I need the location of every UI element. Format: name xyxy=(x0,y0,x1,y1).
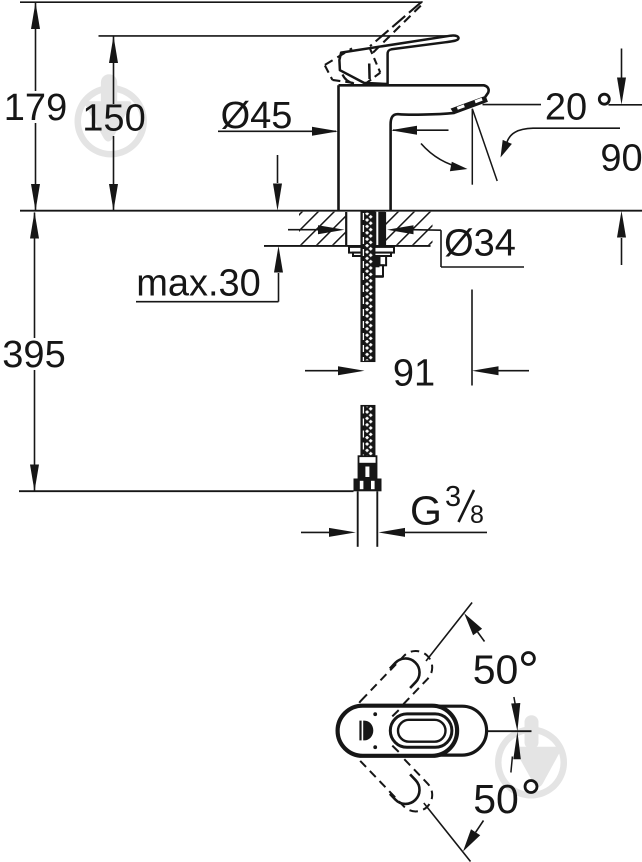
braided hose lower segment xyxy=(361,406,374,456)
inclined 20deg line xyxy=(472,109,497,181)
lever front lower edge xyxy=(368,64,371,80)
black D mark xyxy=(359,721,373,741)
dimension 395 xyxy=(30,212,39,492)
centerline to the right xyxy=(487,730,532,732)
pivot tick marks on lever pill cap xyxy=(392,710,398,752)
aerator on spout xyxy=(451,96,487,113)
dimension Ø34 with box leader xyxy=(288,225,524,267)
countertop line xyxy=(20,210,642,212)
solid arc inside lower dashed stadium xyxy=(390,774,420,804)
faucet body outline xyxy=(339,85,489,210)
hose nut xyxy=(354,479,382,492)
svg-text:179: 179 xyxy=(4,87,67,129)
dashed swivel stadium upper xyxy=(350,644,439,735)
50 deg lower: diagonal + leader xyxy=(424,803,471,862)
spout underside and body right edge xyxy=(391,113,455,210)
svg-text:395: 395 xyxy=(2,334,65,376)
50 deg upper: diagonal + leader xyxy=(426,603,472,662)
counter slab bottom line xyxy=(264,245,431,247)
lever top-view inner stadium xyxy=(398,720,446,742)
dimension 179 xyxy=(31,2,40,211)
curved leader from 20deg text to inclined line xyxy=(507,128,620,142)
mounting washer and nut under counter xyxy=(349,247,394,277)
second pipe (dark) in shank xyxy=(378,212,385,246)
watermark top-left xyxy=(75,74,147,157)
svg-text:max.30: max.30 xyxy=(136,263,261,305)
watermark bottom-right xyxy=(495,715,567,798)
hose ferrule xyxy=(358,456,377,478)
svg-text:Ø45: Ø45 xyxy=(221,95,293,137)
svg-text:91: 91 xyxy=(393,353,435,395)
svg-text:Ø34: Ø34 xyxy=(444,223,516,265)
lever handle (down position, solid) xyxy=(339,36,458,84)
body top and spout top edge xyxy=(339,85,489,97)
dimension Ø45 with leader arrows xyxy=(218,126,449,136)
left arc pointing at vertical line xyxy=(421,144,464,169)
dashed swivel stadium lower xyxy=(350,727,439,818)
lever top-view stadium xyxy=(390,714,452,747)
svg-text:50: 50 xyxy=(473,776,519,822)
svg-text:8: 8 xyxy=(470,501,484,529)
svg-text:3: 3 xyxy=(445,481,461,513)
extension line (lever-down height) xyxy=(99,35,453,37)
escutcheon stadium (thin, right) xyxy=(361,706,487,755)
svg-text:50: 50 xyxy=(473,646,519,692)
lever handle (raised position, dashed) xyxy=(325,2,422,83)
395 bottom reference line xyxy=(19,490,354,492)
dimension 150 xyxy=(109,36,118,211)
dimension max.30 xyxy=(136,155,283,302)
escutcheon stadium (thick, left) xyxy=(338,706,458,756)
G3/8 threaded pipe xyxy=(358,491,378,547)
solid arc inside upper dashed stadium xyxy=(390,658,420,688)
dimension 91 xyxy=(305,290,529,386)
dimension G 3/8 xyxy=(301,528,487,537)
screw dots xyxy=(373,712,377,716)
svg-text:150: 150 xyxy=(82,98,145,140)
small arc at lever base xyxy=(343,75,355,84)
extension line top (lever-up height) xyxy=(20,1,423,3)
shank through counter xyxy=(346,212,385,246)
body left edge xyxy=(337,85,340,210)
svg-text:20: 20 xyxy=(545,87,587,129)
svg-text:G: G xyxy=(410,488,442,534)
dimension 90 xyxy=(617,49,626,266)
opposed arrows on centerline xyxy=(511,703,521,759)
vertical reference at spout outlet xyxy=(471,109,473,185)
dimension 20 deg xyxy=(421,105,642,185)
braided hose upper segment xyxy=(361,212,374,361)
svg-text:90: 90 xyxy=(600,138,642,180)
